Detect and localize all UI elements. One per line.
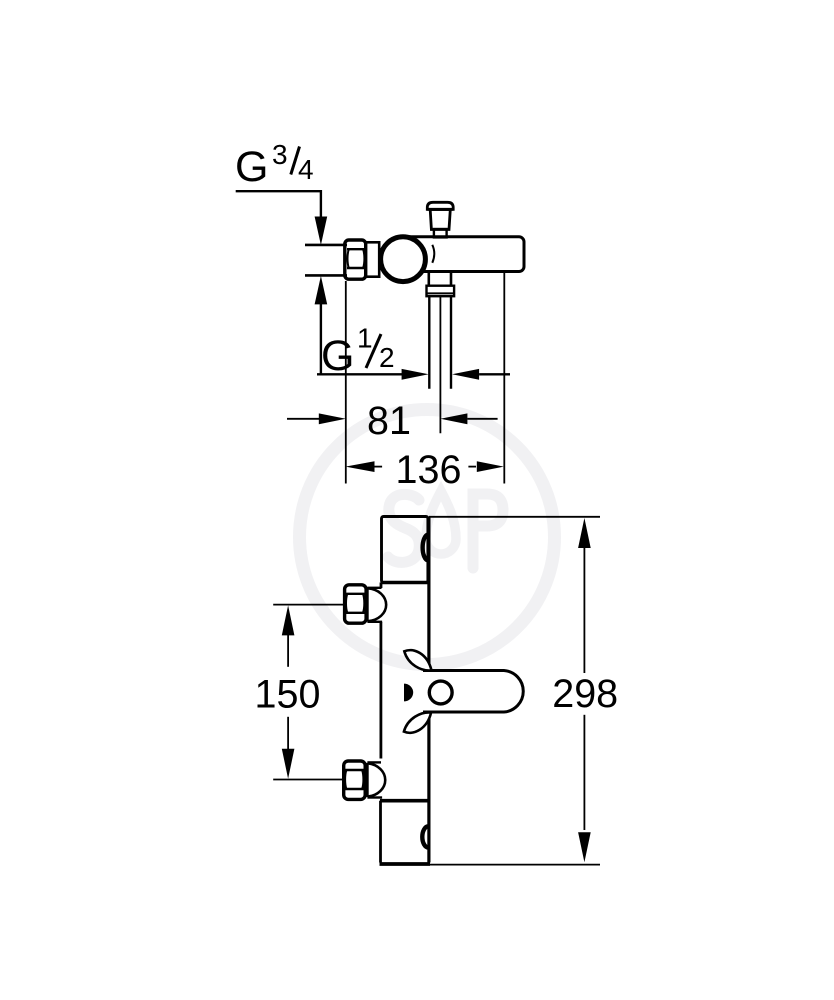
- svg-text:81: 81: [367, 399, 411, 443]
- 298 bottom extension line: [430, 864, 600, 866]
- diverter bump (side view): [423, 535, 428, 561]
- body right edge upper: [427, 517, 430, 671]
- stop button (filled): [404, 684, 413, 702]
- lower bell lip top: [367, 761, 381, 763]
- label G 3/4: [235, 139, 314, 191]
- body (top view): [396, 237, 524, 272]
- watermark letter P: [473, 494, 503, 568]
- svg-text:136: 136: [396, 448, 462, 492]
- 150 lower extension line: [273, 779, 344, 781]
- box bottom thick line: [382, 581, 429, 585]
- upper bell arc: [368, 588, 386, 621]
- handle pivot circle: [429, 681, 452, 704]
- body joint thick line: [380, 799, 429, 803]
- dimension 298: [578, 518, 591, 548]
- svg-text:G: G: [321, 332, 354, 380]
- outlet bottom face: [380, 862, 431, 866]
- upper bell chord: [366, 588, 369, 622]
- arrow up to pipe bottom with shaft: [315, 276, 328, 305]
- G1/2 leader + left arrow of hose dim: [317, 373, 402, 375]
- svg-text:G: G: [235, 143, 268, 191]
- hose nipple bump (side view): [422, 826, 428, 847]
- svg-text:150: 150: [255, 672, 321, 716]
- svg-text:4: 4: [298, 154, 314, 185]
- body right edge lower: [427, 712, 430, 863]
- body left edge segment 1: [380, 583, 383, 589]
- svg-text:2: 2: [379, 342, 395, 373]
- hex nut (top view): [345, 240, 366, 279]
- watermark droplet: [426, 491, 456, 554]
- lower bell lip bottom: [367, 796, 382, 798]
- body left edge segment 2: [379, 622, 382, 759]
- upper bell lip bottom: [367, 621, 382, 623]
- body-knob intersection arc: [432, 245, 434, 263]
- 150 upper extension line: [273, 604, 344, 606]
- right arrow of hose dim: [452, 369, 479, 380]
- diverter knob stem: [434, 229, 447, 237]
- upper leaf of lever base: [404, 650, 431, 670]
- svg-text:3: 3: [272, 139, 288, 170]
- dimension 81: [287, 418, 319, 420]
- outlet block left edge: [379, 801, 382, 863]
- shower hose lines: [428, 296, 430, 389]
- lower bell chord: [366, 763, 369, 797]
- upper bell lip top: [367, 587, 381, 589]
- slash of G 1/2: [366, 334, 381, 368]
- collar between nut and knob: [366, 242, 380, 276]
- diverter knob body: [430, 210, 450, 230]
- left extension line (dim 81/136): [345, 281, 347, 484]
- 298 top extension line: [429, 516, 600, 518]
- watermark ring: [300, 410, 555, 665]
- lever (side view): [423, 671, 523, 713]
- right extension line (dim 136): [503, 273, 505, 484]
- svg-text:1: 1: [357, 323, 373, 354]
- svg-text:298: 298: [552, 672, 618, 716]
- watermark letter S: [388, 494, 419, 562]
- label G 1/2: [321, 323, 395, 381]
- dimension 150: [282, 605, 295, 635]
- lower leaf of lever base: [404, 712, 431, 732]
- leader line from G3/4: [236, 191, 321, 218]
- dimension 136: [345, 461, 374, 472]
- hex nut upper (side view): [345, 585, 367, 623]
- thermostat knob circle (top view): [381, 237, 426, 282]
- slash of G 3/4: [291, 147, 300, 175]
- outlet tube below body: [427, 272, 430, 286]
- inlet pipe G3/4 (top line): [305, 244, 347, 247]
- outlet collar: [427, 286, 455, 297]
- hose axis line: [439, 296, 441, 433]
- cartridge box (side view): [382, 517, 428, 583]
- hex nut lower (side view): [344, 761, 366, 799]
- diverter knob cap: [427, 202, 453, 209]
- inlet pipe G3/4 (bottom line): [305, 274, 347, 277]
- arrow down to pipe top: [315, 217, 328, 246]
- lower bell arc: [368, 763, 385, 796]
